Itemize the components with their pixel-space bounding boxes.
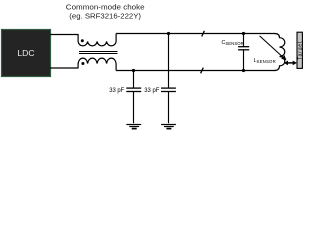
junction: Csensor bottom node — [242, 69, 245, 72]
wire: LDC bottom to choke — [50, 67, 78, 69]
wire: top bus from choke to sensor coil — [116, 33, 275, 35]
svg-text:LSENSOR: LSENSOR — [254, 58, 276, 64]
choke bottom winding polarity dot — [81, 62, 84, 65]
wire: LDC top to choke — [50, 34, 78, 36]
choke top winding polarity dot — [81, 39, 84, 42]
svg-text:33 pF: 33 pF — [144, 87, 159, 94]
capacitor C2 33 pF — [161, 34, 176, 124]
svg-text:LDC: LDC — [17, 48, 34, 58]
svg-text:(eg. SRF3216-222Y): (eg. SRF3216-222Y) — [69, 13, 141, 20]
ground (C2) — [161, 125, 176, 129]
target-motion double arrow — [284, 61, 297, 66]
svg-text:Target: Target — [297, 41, 303, 60]
variable-inductance arrow through coil — [260, 36, 287, 60]
ground (C1) — [126, 125, 141, 129]
common-mode choke T1 bottom winding — [78, 58, 116, 70]
svg-text:33 pF: 33 pF — [109, 87, 124, 94]
cable-break hash on top bus — [202, 31, 205, 37]
target plate — [297, 32, 303, 68]
choke core lines — [79, 52, 118, 54]
wire: bottom bus from choke to sensor coil — [116, 70, 275, 72]
cable-break hash on bottom bus — [201, 68, 204, 74]
junction: Csensor top node — [242, 32, 245, 35]
common-mode choke T1 top winding — [78, 34, 116, 46]
capacitor C1 33 pF — [126, 71, 141, 124]
svg-text:CSENSOR: CSENSOR — [222, 40, 244, 46]
LDC block U1 — [2, 30, 51, 77]
capacitor CSENSOR — [238, 34, 249, 71]
junction: C1 bottom-bus node — [132, 69, 135, 72]
inductor LSENSOR coil — [275, 34, 285, 71]
label: Common-mode choke title — [66, 4, 145, 20]
svg-text:Common-mode choke: Common-mode choke — [66, 4, 145, 11]
junction: C2 top-bus node — [167, 32, 170, 35]
